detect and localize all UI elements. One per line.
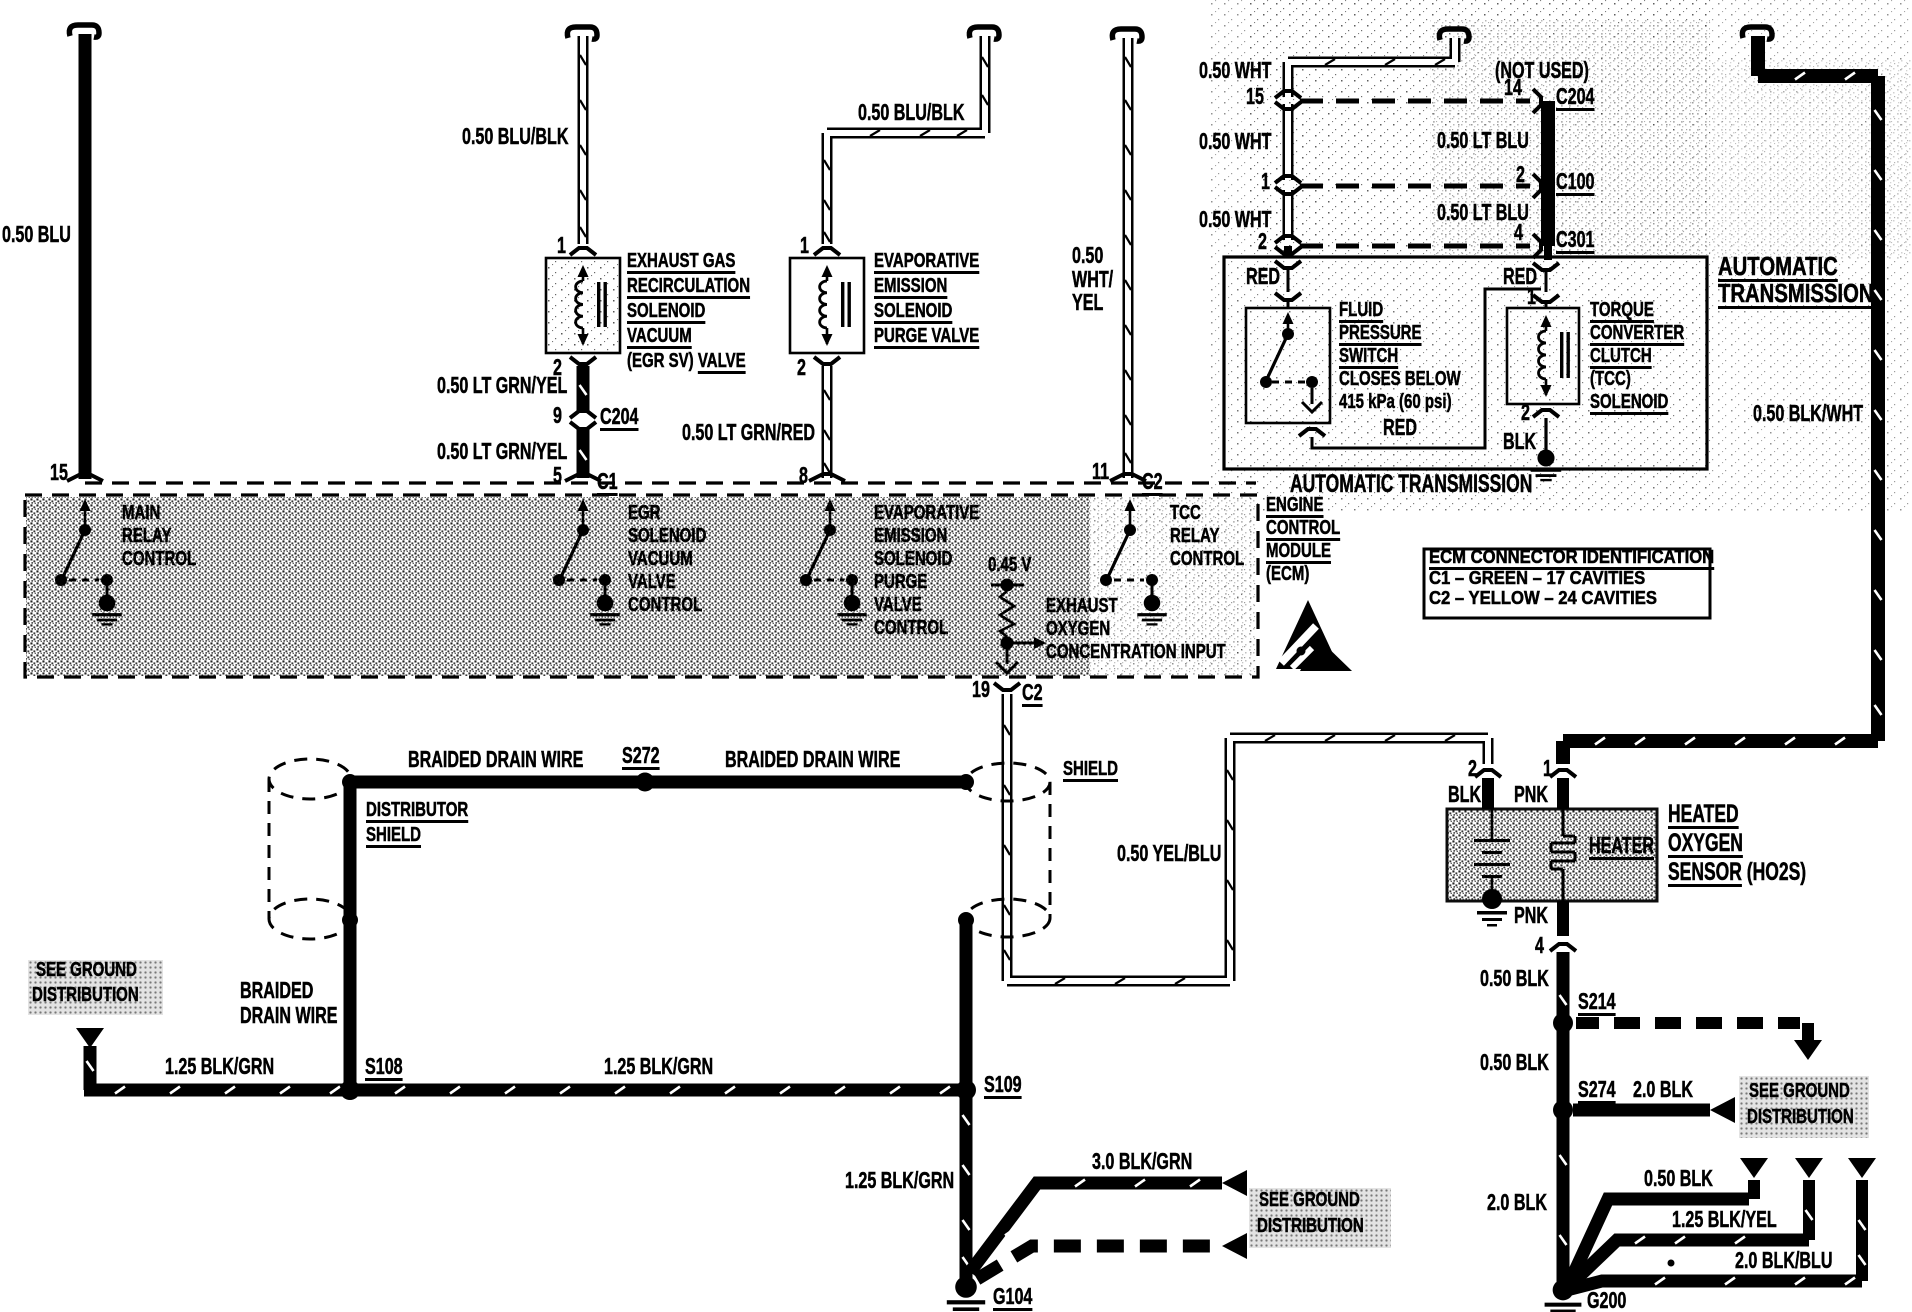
shield label: [1063, 759, 1118, 781]
pin 1 label EGR: [557, 233, 566, 258]
wire RED from C301 down to TCC solenoid pin 1: [1544, 246, 1552, 260]
automatic transmission box: [1224, 257, 1707, 469]
evap solenoid purge valve control label: [874, 503, 979, 525]
pin 11 connector C2 at ECM: [1110, 474, 1146, 481]
pin 2 label EGR: [553, 355, 562, 380]
ESD sensitive device symbol: [1276, 600, 1340, 669]
pin 1 label TCC solenoid: [1527, 284, 1536, 309]
main relay control switch in ECM: [84, 505, 87, 527]
pin 4 label C301: [1514, 220, 1523, 245]
braided drain wire horizontal to shield: [351, 776, 963, 789]
label 0.50 YEL/BLU: [1117, 841, 1221, 866]
connector pin 1 C100 row: [1275, 176, 1301, 183]
connector C1 label: [597, 469, 618, 494]
arrow down 1.25 BLK/YEL: [1795, 1158, 1823, 1178]
ECM connector identification title: [1429, 547, 1714, 567]
torque converter clutch label: [1590, 300, 1654, 322]
arrow from see ground distribution to 1.25 BLK/GRN: [76, 1028, 104, 1048]
fluid pressure switch label: [1339, 300, 1383, 322]
heated oxygen sensor HO2S box: [1447, 809, 1657, 901]
splice S108 label: [365, 1054, 403, 1079]
label PNK HO2S: [1514, 782, 1548, 807]
ground inside HO2S: [1482, 889, 1502, 909]
label BLK TCC: [1503, 429, 1536, 454]
label 0.50 WHT 1: [1199, 58, 1271, 83]
label 0.45 V: [988, 555, 1031, 577]
pin 2 connector HO2S: [1475, 770, 1501, 777]
wire 0.50 LT GRN/YEL upper segment: [577, 366, 590, 412]
distributor shield label: [366, 800, 468, 822]
pin 14 label: [1504, 75, 1522, 100]
HO2S sensor element symbol: [1491, 809, 1494, 839]
evap purge valve name: [874, 251, 979, 273]
splice S109 label: [984, 1072, 1022, 1097]
scan noise top-right region: [1210, 0, 1912, 512]
pin 5 connector C1 at ECM: [565, 474, 601, 481]
wire BLK TCC solenoid to ground: [1544, 418, 1547, 452]
ground at TCC solenoid in transmission: [1537, 449, 1554, 466]
pin 15 label right: [1246, 84, 1264, 109]
wire 0.50 WHT between pins 15 and 1: [1283, 104, 1294, 180]
wire RED from pin2 into transmission left: [1284, 246, 1292, 258]
wire 0.50 BLK/WHT from top right to HO2S pin 1: [1742, 27, 1772, 39]
wire 0.50 WHT/YEL to TCC relay control: [1112, 29, 1142, 41]
automatic transmission label bottom: [1290, 471, 1532, 498]
see ground distribution box left: [28, 960, 163, 1015]
braided drain wire distributor vertical: [344, 782, 357, 1090]
pin 1 label evap: [800, 233, 809, 258]
arrow down from S214 branch: [1794, 1040, 1822, 1060]
arrow to see ground distribution from S274: [1710, 1097, 1735, 1123]
evaporative emission solenoid purge valve component box: [790, 258, 864, 353]
automatic transmission label right: [1718, 252, 1838, 280]
label 0.50 BLU/BLK EGR: [462, 124, 568, 149]
pin 1 label HO2S: [1543, 756, 1552, 781]
see ground distribution box right: [1739, 1076, 1869, 1138]
EGR solenoid vacuum valve control switch in ECM: [582, 505, 585, 527]
EGR solenoid vacuum valve control label: [628, 503, 661, 525]
splice S108: [340, 1080, 360, 1100]
stray scan mark: [1668, 1260, 1675, 1267]
pin connector below fluid pressure switch: [1299, 429, 1325, 436]
wire 0.50 LT GRN/RED: [822, 366, 833, 478]
wire 1.25 BLK/YEL branch at G200: [1567, 1240, 1809, 1288]
wire 0.50 WHT riser: [1288, 38, 1455, 97]
exhaust oxygen concentration input label: [1046, 596, 1118, 618]
torque converter clutch TCC solenoid box: [1507, 308, 1579, 404]
pin 2 label right row3: [1258, 229, 1267, 254]
pin 4 label HO2S: [1535, 933, 1544, 958]
wire 0.50 WHT between pins 1 and 2: [1283, 190, 1294, 240]
connector pin 15 C204 row: [1275, 91, 1301, 98]
heater label: [1589, 833, 1654, 858]
pin 19 label: [972, 677, 990, 702]
label 0.50 WHT 3: [1199, 207, 1271, 232]
label 0.50 BLK branch: [1644, 1166, 1713, 1191]
label 2.0 BLK/BLU: [1735, 1248, 1833, 1273]
ground G104 label: [993, 1284, 1032, 1309]
wire 1.25 BLK/GRN down to G104: [960, 1090, 973, 1282]
pin 2 connector C100: [1533, 174, 1541, 198]
connector C204 label: [600, 404, 638, 429]
connector C2 label at pin 19: [1022, 680, 1043, 705]
pin 2 connector EGR solenoid: [570, 357, 596, 364]
label 0.50 LT GRN/RED: [682, 420, 815, 445]
label RED right: [1503, 264, 1537, 289]
pin 1 label right: [1261, 169, 1270, 194]
EGR valve name line 1: [627, 251, 735, 273]
pin 1 connector HO2S: [1550, 770, 1576, 777]
label 1.25 BLK/GRN down: [845, 1168, 954, 1193]
splice S274: [1553, 1100, 1573, 1120]
pin 14 connector C204: [1533, 89, 1541, 113]
pin 15 connector at ECM: [67, 474, 103, 481]
TCC relay control switch in ECM: [1129, 505, 1132, 527]
braided drain wire from shield down to S109: [960, 920, 973, 1090]
wire 0.50 BLU/BLK to evaporative emission solenoid: [969, 27, 999, 39]
label 0.50 BLU: [2, 222, 71, 247]
junction dot at shield bottom: [958, 912, 974, 928]
connector C2 label at pin 11: [1142, 469, 1163, 494]
wire 0.50 LT GRN/YEL lower segment: [577, 428, 590, 478]
label 0.50 BLK/WHT: [1753, 401, 1863, 426]
pin 1 connector TCC solenoid: [1533, 295, 1559, 302]
wire 1.25 BLK/GRN left segment: [84, 1046, 97, 1090]
wire 0.50 BLU/BLK to EGR solenoid: [567, 27, 597, 39]
pin 4 connector C301: [1533, 234, 1541, 258]
arrow down 2.0 BLK/BLU: [1848, 1158, 1876, 1178]
label 0.50 BLK 2: [1480, 1050, 1549, 1075]
EGR solenoid vacuum valve component box: [546, 258, 620, 353]
see ground distribution box middle: [1249, 1188, 1391, 1248]
shield cylinder around oxygen signal wire: [966, 763, 1050, 801]
wire 0.50 LT BLU C204 to C301: [1541, 101, 1555, 246]
arrow down 0.50 BLK: [1740, 1158, 1768, 1178]
pin 2 label C100: [1516, 162, 1525, 187]
pin 11 label: [1092, 459, 1109, 484]
wire 1.25 BLK/GRN middle segment: [350, 1084, 966, 1097]
splice S274 label: [1578, 1077, 1616, 1102]
heated oxygen sensor label: [1668, 801, 1739, 828]
connector pin 2 C301 row: [1275, 236, 1301, 243]
splice S214 label: [1578, 989, 1616, 1014]
label 1.25 BLK/GRN middle: [604, 1054, 713, 1079]
label 0.50 WHT 2: [1199, 129, 1271, 154]
junction dot at distributor shield top: [342, 774, 358, 790]
splice S272: [636, 773, 655, 792]
arrow to see ground distribution 3.0 BLK/GRN: [1222, 1170, 1247, 1196]
junction dot at shield top: [958, 774, 974, 790]
pin 2 label HO2S: [1468, 756, 1477, 781]
wire 0.50 BLK from HO2S pin 4: [1557, 952, 1570, 1285]
arrow to see ground distribution dashed: [1222, 1233, 1247, 1259]
label PNK below HO2S: [1514, 903, 1548, 928]
label 2.0 BLK G200: [1487, 1190, 1547, 1215]
label 3.0 BLK/GRN: [1092, 1149, 1192, 1174]
dashed wire pin 15 to pin 14 C204: [1300, 99, 1530, 104]
label 0.50 LT GRN/YEL lower: [437, 439, 567, 464]
ECM connector pins dashed line: [85, 481, 1256, 484]
wire BLK stub to HO2S: [1482, 778, 1494, 809]
HO2S heater element symbol: [1551, 809, 1575, 901]
wire 0.50 BLK branch at G200: [1567, 1199, 1749, 1288]
dashed ground branch wire at G104: [977, 1246, 1218, 1279]
pin 2 connector TCC solenoid: [1533, 410, 1559, 417]
connector C100 label: [1556, 169, 1594, 194]
label RED bottom: [1383, 415, 1417, 440]
evap emission solenoid purge valve control switch in ECM: [829, 505, 832, 527]
wire 3.0 BLK/GRN branch: [970, 1183, 1222, 1272]
pin 5 label: [553, 463, 562, 488]
ground G200 label: [1587, 1288, 1626, 1312]
label 0.50 LT BLU 2: [1437, 200, 1529, 225]
dashed wire pin 2 to pin 4 C301: [1300, 244, 1530, 249]
connector C301 label: [1556, 227, 1594, 252]
fluid pressure switch contacts: [1287, 316, 1290, 332]
braided drain wire label left: [408, 747, 583, 772]
pin 9 label: [553, 403, 562, 428]
wire 2.0 BLK/BLU branch at G200: [1567, 1281, 1862, 1290]
label 0.50 BLU/BLK evap: [858, 100, 964, 125]
ground G200: [1553, 1280, 1574, 1301]
label 1.25 BLK/YEL: [1672, 1207, 1777, 1232]
label BLK HO2S: [1448, 782, 1481, 807]
ground G104: [955, 1276, 977, 1298]
braided drain wire label right: [725, 747, 900, 772]
TCC relay control label: [1170, 503, 1201, 525]
braided drain wire label bottom: [240, 978, 313, 1003]
pin 1 connector EGR solenoid: [570, 248, 596, 255]
connector C204 pin 9: [570, 411, 596, 418]
pin 8 connector at ECM: [809, 474, 845, 481]
wire 2.0 BLK from S274: [1573, 1104, 1710, 1117]
splice S272 label: [622, 743, 660, 768]
connector C204 label right: [1556, 84, 1594, 109]
label RED left: [1246, 264, 1280, 289]
0.45 V reference and resistor exhaust oxygen concentration input: [991, 584, 1024, 587]
dashed wire 0.50 BLK from S214: [1576, 1017, 1800, 1029]
fluid pressure switch box: [1246, 308, 1330, 423]
label 2.0 BLK S274: [1633, 1077, 1693, 1102]
wire 0.50 BLU main relay control: [69, 25, 99, 37]
main relay control label: [122, 503, 160, 525]
pin 19 connector C2 below ECM: [994, 683, 1020, 690]
label 0.50 BLK 1: [1480, 966, 1549, 991]
pin 2 label evap: [797, 355, 806, 380]
label NOT USED: [1495, 58, 1589, 83]
pin 8 label: [799, 463, 808, 488]
splice S214: [1553, 1013, 1573, 1033]
pin 1 connector evap solenoid: [814, 248, 840, 255]
pin 15 label: [50, 460, 68, 485]
wire RED from fluid pressure switch to TCC solenoid: [1312, 289, 1541, 448]
engine control module ECM dashed box: [26, 497, 1090, 676]
wire 0.50 YEL/BLU shielded oxygen sensor signal: [1007, 694, 1488, 981]
label 0.50 LT GRN/YEL upper: [437, 373, 567, 398]
label 1.25 BLK/GRN left: [165, 1054, 274, 1079]
label 0.50 LT BLU 1: [1437, 128, 1529, 153]
pin 2 label TCC solenoid: [1521, 400, 1530, 425]
ECM connector identification table: [1424, 549, 1710, 618]
dashed wire pin 1 to pin 2 C100: [1300, 184, 1530, 189]
splice S109: [956, 1080, 976, 1100]
pin 4 connector HO2S: [1557, 901, 1569, 936]
wire PNK stub to HO2S: [1557, 778, 1569, 809]
junction dot at distributor shield bottom: [342, 912, 358, 928]
pin 2 connector evap solenoid: [814, 357, 840, 364]
distributor shield cylinder: [269, 759, 351, 799]
label 0.50 WHT/YEL: [1072, 243, 1103, 268]
engine control module label: [1266, 495, 1324, 517]
